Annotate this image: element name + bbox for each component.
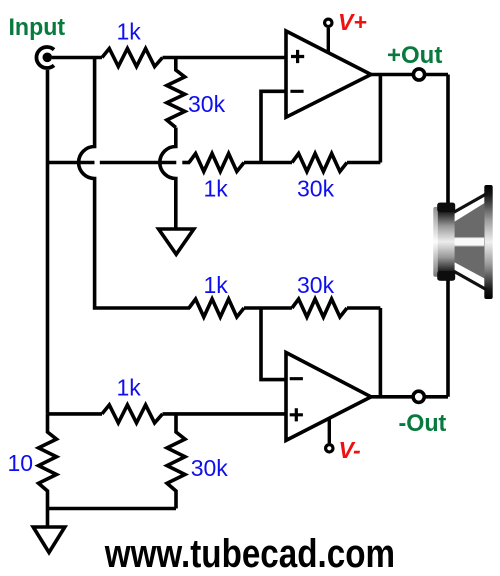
wire: left rail from input jack down to bottom network: [46, 70, 50, 414]
wire: R 1k to U1 non-inverting input: [163, 56, 287, 60]
wire: U1 output feedback riser: [379, 75, 383, 163]
op-amp U2 (bottom): [286, 353, 371, 441]
wire: U2 output to -Out and speaker rail: [371, 395, 448, 399]
svg-text:V+: V+: [338, 9, 367, 35]
wire: lower node down to U2 inverting input: [261, 308, 286, 380]
ground (mid, below 30k): [159, 229, 194, 254]
resistor 30k (U2 feedback): [292, 299, 347, 317]
wire: bottom tie between 10 and 30k: [48, 507, 177, 511]
wire: right rail down to speaker top: [446, 75, 450, 211]
svg-text:www.tubecad.com: www.tubecad.com: [104, 531, 395, 576]
wire: lower 1k to U2 non-inverting input: [163, 412, 287, 416]
wire: 30k down (hop over mid wire) to ground: [160, 128, 176, 230]
svg-text:30k: 30k: [297, 176, 335, 202]
svg-text:10: 10: [8, 450, 34, 476]
resistor 30k (U1 feedback): [292, 154, 347, 172]
wire: lower 30k to output riser: [347, 306, 380, 310]
svg-text:1k: 1k: [117, 18, 142, 44]
wire: U2 output feedback riser: [379, 308, 383, 397]
-Out terminal: [413, 391, 424, 402]
op-amp U1 (top): [286, 31, 371, 117]
svg-text:V-: V-: [339, 437, 361, 463]
V- power terminal: [326, 418, 333, 452]
wire: mid feedback line (segment 3): [182, 161, 190, 165]
svg-text:30k: 30k: [297, 272, 335, 298]
wire: input jack to R 1k (top): [52, 56, 102, 60]
+Out terminal: [413, 69, 424, 80]
resistor 30k (input shunt, top): [167, 58, 185, 128]
wire: right rail up to speaker bottom: [446, 275, 450, 397]
svg-text:+Out: +Out: [387, 42, 442, 69]
wire: mid node up to U1 inverting input: [261, 91, 286, 162]
wire: left rail to lower 1k: [48, 412, 103, 416]
svg-text:30k: 30k: [188, 91, 226, 117]
wire: stub to bottom ground: [46, 509, 50, 528]
wire: mid node between 1k and 30k: [244, 161, 292, 165]
svg-text:1k: 1k: [117, 375, 142, 401]
svg-text:30k: 30k: [191, 455, 229, 481]
resistor 10 (left shunt): [39, 414, 57, 509]
resistor 1k (U1 feedback divider): [189, 154, 244, 172]
ground (bottom left): [33, 527, 65, 553]
resistor 1k (to U2 non-inverting input): [102, 405, 163, 423]
svg-text:-Out: -Out: [399, 411, 447, 437]
resistor 1k (U2 input): [189, 299, 244, 317]
wire: lower node between 1k and 30k: [244, 306, 292, 310]
input jack terminal: [36, 47, 54, 68]
speaker (load): [433, 185, 492, 299]
resistor 30k (lower shunt): [167, 414, 185, 509]
svg-text:1k: 1k: [204, 176, 229, 202]
wire: U1 output to +Out and speaker rail: [371, 73, 448, 77]
wire: mid feedback line (segment 2): [100, 161, 177, 165]
wire: 30k to output riser: [347, 161, 380, 165]
svg-text:Input: Input: [9, 13, 66, 39]
wire: left rail to mid feedback line (segment 1): [48, 161, 95, 165]
svg-text:1k: 1k: [204, 272, 229, 298]
wire: input tap down (hop over mid wire) to lower 1k: [79, 58, 190, 309]
V+ power terminal: [325, 19, 332, 53]
resistor 1k (top input to +in of U1): [102, 49, 163, 67]
